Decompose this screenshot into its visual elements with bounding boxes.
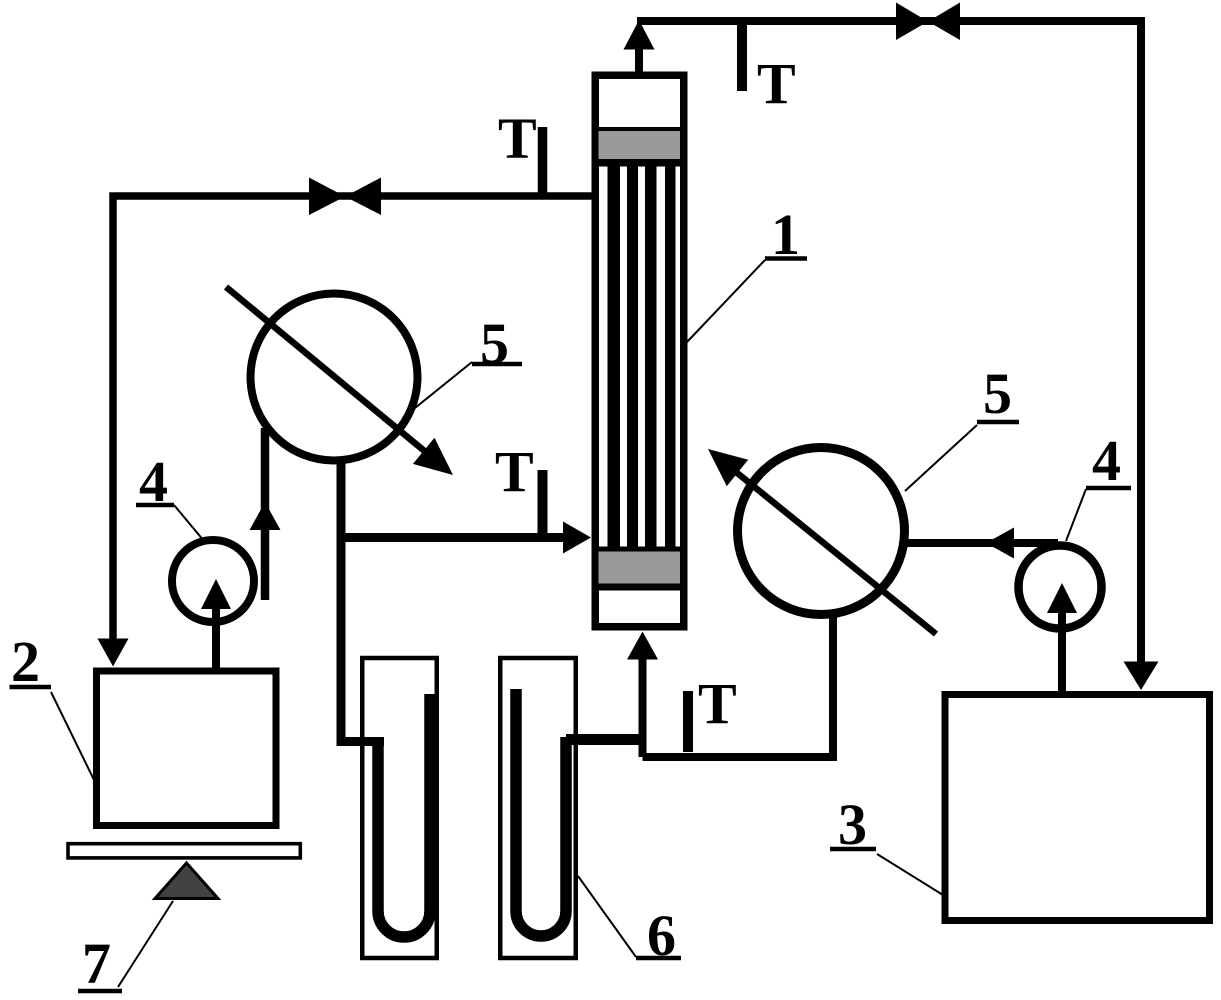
svg-text:3: 3 [838, 792, 867, 857]
svg-text:T: T [757, 51, 796, 116]
svg-text:T: T [498, 106, 537, 171]
svg-text:T: T [495, 439, 534, 504]
svg-text:4: 4 [1092, 428, 1121, 493]
svg-text:1: 1 [771, 202, 800, 267]
svg-text:5: 5 [983, 361, 1012, 426]
svg-text:2: 2 [11, 629, 40, 694]
svg-text:7: 7 [82, 931, 111, 996]
svg-text:4: 4 [139, 449, 168, 514]
svg-text:5: 5 [480, 311, 509, 376]
svg-text:6: 6 [647, 903, 676, 968]
svg-text:T: T [698, 671, 737, 736]
